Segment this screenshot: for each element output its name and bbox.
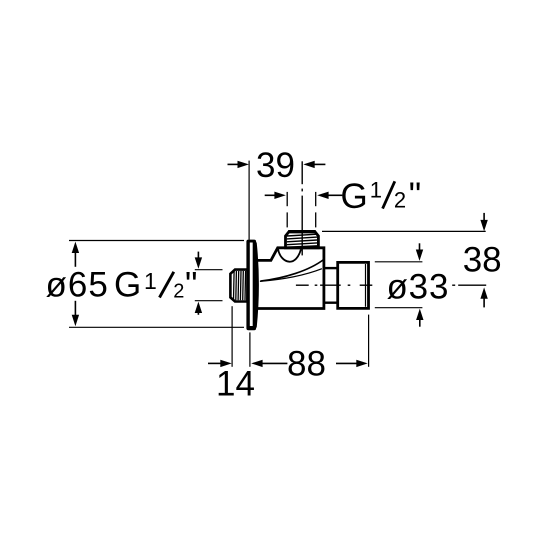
flange plate curved rim bbox=[255, 243, 257, 328]
svg-text:G: G bbox=[114, 266, 141, 305]
outlet cylinder end-face inner line bbox=[365, 264, 367, 307]
body swoosh curve upper bbox=[260, 259, 324, 281]
svg-text:1: 1 bbox=[144, 268, 157, 294]
callout G1/2 top: right arrow bbox=[317, 192, 328, 199]
dim o33: up arrow bbox=[416, 309, 423, 320]
dim 14/88: left extension line bbox=[231, 306, 233, 367]
dim 39: extension line bbox=[248, 161, 250, 240]
svg-text:39: 39 bbox=[256, 146, 295, 185]
callout G1/2 left small dim: top extension line bbox=[195, 269, 223, 271]
svg-text:38: 38 bbox=[463, 241, 502, 280]
dim 14: left arrow bbox=[208, 362, 222, 364]
horizontal axis center line bbox=[296, 284, 486, 286]
dim 39: right arrow bbox=[303, 161, 314, 168]
body swoosh curve lower bbox=[260, 269, 322, 282]
dim 88: right arrow bbox=[336, 362, 358, 364]
dim 88: left arrow (shared with dim 14) bbox=[251, 360, 262, 367]
valve body bbox=[255, 248, 324, 309]
callout G1/2 left small dim: bottom extension line bbox=[195, 300, 223, 302]
dim o33: bottom extension line bbox=[375, 307, 423, 309]
svg-text:14: 14 bbox=[216, 365, 255, 404]
dim 14/88: right extension line bbox=[368, 315, 370, 367]
top thread (vertical G1/2 outlet) bbox=[286, 231, 319, 247]
top thread hatch lines bbox=[287, 234, 317, 247]
top thread cap bar bbox=[288, 230, 315, 233]
dim o33: down arrow bbox=[419, 243, 421, 250]
callout G1/2 top: left arrow bbox=[265, 194, 276, 196]
dim 14/88: middle extension line bbox=[249, 332, 251, 366]
callout G1/2 left small dim: down arrow bbox=[197, 252, 199, 259]
svg-text:": " bbox=[409, 176, 421, 215]
svg-text:1: 1 bbox=[370, 177, 382, 202]
dim 38: top extension line bbox=[322, 230, 486, 232]
scoop curve under top thread bbox=[278, 248, 301, 261]
wall flange plate (escutcheon) bbox=[246, 240, 256, 331]
dim 39: left arrow bbox=[228, 163, 240, 165]
dim o65: bottom extension line bbox=[69, 326, 244, 328]
svg-text:2: 2 bbox=[394, 188, 406, 213]
svg-text:": " bbox=[185, 266, 197, 305]
svg-text:88: 88 bbox=[287, 345, 326, 384]
neck lower line bbox=[324, 302, 338, 304]
callout G1/2 left small dim: up arrow bbox=[195, 302, 202, 313]
inlet thread (left G1/2) bbox=[230, 270, 247, 302]
dim 38: up arrow bbox=[480, 287, 487, 298]
dim 38: down arrow bbox=[483, 213, 485, 221]
svg-text:ø33: ø33 bbox=[387, 267, 450, 306]
flange plate face highlight strip bbox=[250, 243, 253, 327]
dim o65: up arrow bbox=[72, 242, 79, 253]
dim o33: top extension line bbox=[375, 261, 423, 263]
dim o65: down arrow bbox=[72, 315, 79, 326]
inlet thread hatch lines bbox=[234, 271, 248, 300]
callout G1/2 top: dashed extension lines bbox=[287, 192, 316, 228]
svg-text:G: G bbox=[341, 177, 368, 216]
neck between body and outlet cylinder bbox=[324, 267, 338, 269]
outlet cylinder (right) bbox=[338, 262, 369, 308]
svg-text:ø65: ø65 bbox=[46, 266, 109, 305]
svg-text:2: 2 bbox=[173, 281, 184, 303]
vertical center line of top thread bbox=[301, 161, 303, 255]
dim o65: top extension line bbox=[69, 240, 244, 242]
